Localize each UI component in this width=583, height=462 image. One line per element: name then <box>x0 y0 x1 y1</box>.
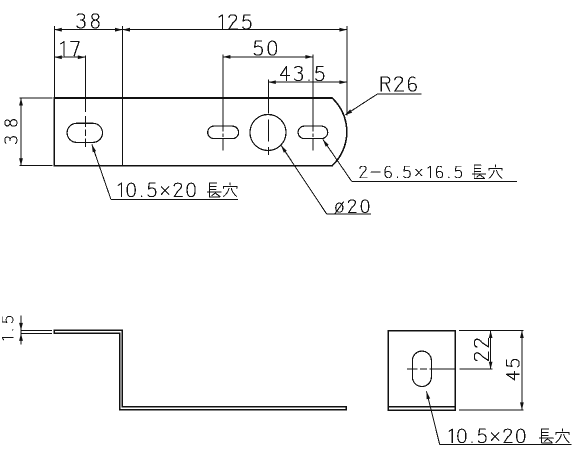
dim line 17 <box>54 56 85 58</box>
dim text 38 (rotated) <box>5 137 17 144</box>
label 10.5x20 (long hole) <box>118 183 121 197</box>
slot 10.5x20 end view <box>412 351 431 386</box>
extension lines left 38 dim <box>20 97 53 99</box>
dim text 45 (rotated) <box>507 372 515 380</box>
leader end view slot <box>427 391 440 444</box>
label dia20 <box>336 203 343 212</box>
centerline circle <box>267 80 269 156</box>
leader circle dia20 <box>281 145 327 214</box>
slot horizontal centerline <box>407 368 456 370</box>
extension line slot center <box>460 368 493 370</box>
extension line right end <box>346 26 348 116</box>
dim line 22 <box>490 331 492 370</box>
leader right slot <box>323 139 352 181</box>
dim line 38 vertical <box>20 98 22 166</box>
label 2-6.5x16.5 (2 long holes) <box>360 166 367 178</box>
leader left slot <box>92 144 111 199</box>
dim line 38 / 125 <box>54 29 347 31</box>
slot 10.5x20 left <box>67 123 102 142</box>
extension line top <box>459 330 524 332</box>
slot 6.5x16.5 right <box>298 126 328 139</box>
dim line 43.5 <box>268 81 347 83</box>
Z profile outline (side view) <box>54 330 346 409</box>
centerline right slot <box>312 55 314 151</box>
bend line <box>122 98 124 166</box>
dim text 1.5 (rotated) <box>2 338 13 340</box>
extension line left edge <box>53 26 55 98</box>
flange thickness line <box>388 406 455 408</box>
hole dia 20 <box>250 115 286 151</box>
dim text 38 <box>77 14 85 28</box>
extension line bottom <box>459 409 524 411</box>
leader R26 <box>346 94 378 115</box>
extension line bend <box>122 26 124 98</box>
dim text 17 <box>61 42 64 56</box>
dim line 45 <box>521 331 523 410</box>
end view square <box>388 331 455 411</box>
label 10.5x20 (long hole, end view) <box>449 429 452 443</box>
extension lines thickness 1.5 <box>21 329 52 331</box>
plate outline (top view, R26 right end) <box>54 98 347 166</box>
dim text 22 (rotated) <box>474 352 488 360</box>
dim text 125 <box>219 15 222 29</box>
label R26 <box>378 77 385 91</box>
slot 6.5x16.5 middle <box>208 126 239 139</box>
dim text 50 <box>254 41 262 55</box>
centerline middle slot <box>222 55 224 151</box>
dim line 50 <box>223 56 313 58</box>
dim text 43.5 <box>280 67 289 76</box>
centerline left slot <box>84 56 86 148</box>
dim line 1.5 <box>20 316 22 345</box>
